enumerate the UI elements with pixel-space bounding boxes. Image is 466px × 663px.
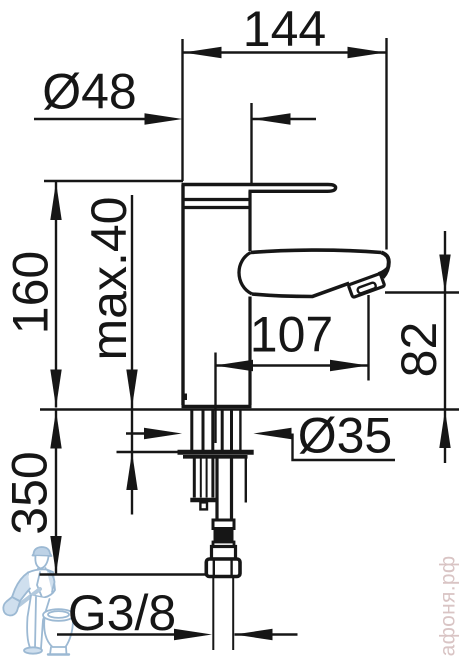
dim max40 line: [131, 195, 133, 452]
dim 144 line: [184, 51, 386, 53]
spout level extension line: [385, 291, 459, 293]
dim 160 line: [55, 182, 57, 408]
dim G38 right tail: [235, 633, 298, 635]
dim G38 arrow left: [174, 629, 212, 640]
dim d35 left tail: [126, 432, 144, 434]
dim 350 arrow bottom: [50, 536, 61, 574]
svg-text:Ø35: Ø35: [298, 408, 393, 464]
supply tube 1: [190, 409, 193, 451]
dim 144 arrow right: [348, 47, 386, 58]
dim 144 arrow left: [184, 47, 222, 58]
dim 107 arrow right: [330, 360, 368, 371]
spout top edge: [251, 250, 382, 252]
svg-text:160: 160: [3, 251, 59, 334]
faucet body bottom edge: [182, 405, 252, 408]
rod housing left wall: [193, 458, 196, 498]
escutcheon flange top: [178, 450, 254, 455]
dim 82 line: [444, 231, 446, 463]
dim 160 extension line top: [44, 180, 183, 182]
dim max40 arrow up: [126, 452, 137, 490]
faucet body right edge upper: [248, 191, 251, 251]
dim max40 lower tail: [131, 452, 133, 515]
faucet body right edge lower: [248, 297, 251, 406]
rod stub: [200, 502, 207, 509]
svg-text:144: 144: [243, 1, 326, 57]
dim 350 arrow top: [50, 411, 61, 449]
second hose line: [245, 458, 247, 503]
dim d48 right tail: [253, 118, 317, 120]
dim 107 arrow left: [215, 360, 253, 371]
svg-text:350: 350: [2, 451, 58, 534]
dim max40 extension line flange: [117, 451, 179, 453]
dim G38 left tail: [57, 633, 175, 635]
escutcheon flange lower: [183, 455, 248, 459]
svg-text:афоня.рф: афоня.рф: [437, 556, 460, 657]
hose braid band: [214, 529, 234, 543]
dim 144 extension line right: [385, 38, 387, 250]
dim G38 arrow right: [235, 629, 273, 640]
dim 350 line: [55, 411, 57, 575]
dim d48 arrow right: [253, 113, 291, 124]
dim d35 arrow left: [144, 428, 182, 439]
dim d48 extension line right: [250, 103, 252, 183]
dim 350 extension line bottom: [40, 573, 207, 575]
dim d48 leader line: [34, 118, 146, 120]
dim d35 leader elbow and underline: [293, 434, 396, 461]
dim 107 extension line left: [214, 353, 216, 444]
supply tube 4: [221, 409, 224, 451]
G38 nut: [206, 559, 240, 577]
nut upper step: [212, 547, 236, 560]
nut facet line left: [213, 561, 215, 576]
rod housing inner line 2: [206, 458, 208, 498]
faucet cap ring line 2: [182, 206, 252, 209]
tail pipe left edge: [212, 577, 214, 650]
tail pipe right edge: [232, 577, 234, 650]
watermark plumber mascot: [3, 547, 74, 655]
spout tip edge: [382, 253, 389, 278]
supply tube 5: [230, 409, 233, 451]
dim 107 line: [215, 364, 368, 366]
dim max40 arrow down: [126, 370, 137, 408]
dim d48 arrow left: [145, 113, 183, 124]
svg-text:82: 82: [391, 322, 447, 378]
svg-text:max.40: max.40: [81, 197, 137, 361]
faucet cap ring line 1: [182, 198, 252, 201]
rod housing right wall: [211, 458, 214, 498]
mounting plane extension line: [40, 408, 459, 410]
dim 160 arrow bottom: [50, 370, 61, 408]
svg-text:107: 107: [250, 307, 333, 363]
spout underside: [252, 283, 349, 296]
supply tube 2: [202, 409, 205, 451]
supply tube 6: [239, 409, 241, 451]
spout junction curve: [239, 253, 252, 295]
dim 144 extension line left: [181, 39, 183, 181]
spout tip lower wedge: [378, 267, 387, 278]
dim 160 arrow top: [50, 182, 61, 220]
dim 82 arrow bottom: [439, 410, 450, 448]
nut facet line right: [230, 561, 232, 576]
hose left edge: [215, 458, 218, 520]
faucet body notch: [183, 394, 188, 401]
hose collar 2: [213, 542, 234, 547]
faucet lever handle: [182, 185, 336, 192]
supply tube 3: [211, 409, 214, 451]
rod housing cap: [190, 498, 216, 502]
dim 82 arrow top: [439, 255, 450, 293]
aerator outer: [348, 273, 384, 297]
aerator slot: [357, 282, 377, 294]
svg-text:G3/8: G3/8: [68, 585, 176, 641]
dim d35 arrow right: [254, 428, 292, 439]
hose right edge: [230, 458, 233, 520]
hose collar 1: [213, 520, 234, 529]
svg-text:Ø48: Ø48: [42, 64, 137, 120]
rod housing inner line 1: [200, 458, 202, 498]
faucet body left edge: [181, 185, 184, 406]
dim 107 extension line right: [367, 295, 369, 381]
